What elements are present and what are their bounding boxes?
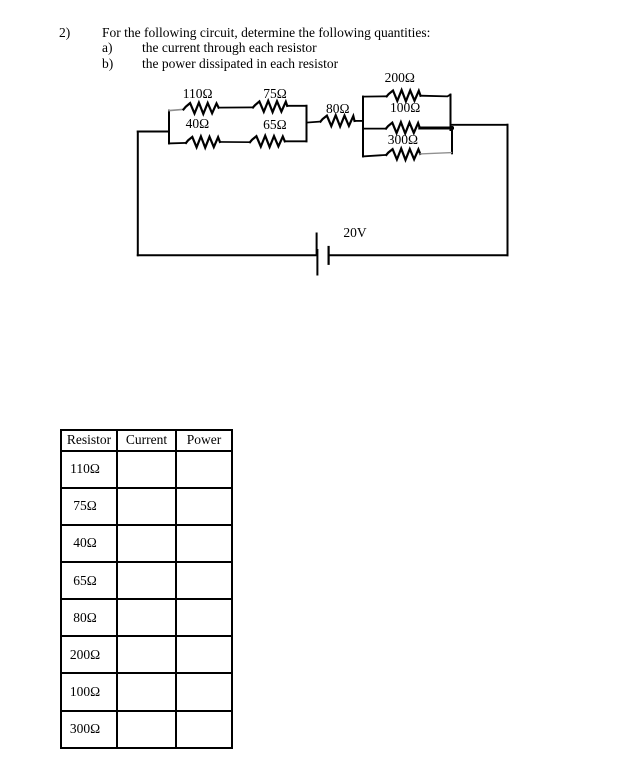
wire output to right outer — [452, 124, 508, 126]
wire bottom branch lead-in second block — [363, 155, 386, 157]
wire bottom branch lead-in — [169, 142, 186, 145]
wire R8 to right bus grey — [420, 153, 451, 154]
wire left stub to node A — [138, 131, 169, 133]
wire right outer vertical — [507, 125, 509, 256]
node A left bus of first parallel block — [168, 111, 170, 144]
battery V1 short plate — [328, 247, 330, 264]
wire R5 to node C — [355, 120, 364, 122]
resistor R5 80ohm — [321, 115, 355, 126]
wire node B to R5 — [307, 122, 321, 123]
wire between R1 and R2 — [219, 106, 253, 108]
resistor R8 300ohm — [386, 149, 420, 160]
wire middle branch lead-in — [363, 128, 386, 130]
wire between R3 and R4 — [220, 141, 250, 143]
resistor R2 75ohm — [253, 101, 287, 112]
value label 75ohm — [263, 87, 287, 101]
node C left bus of second parallel block — [362, 97, 364, 157]
value label 40ohm — [186, 117, 210, 131]
resistor R4 65ohm — [250, 136, 285, 147]
wire R4 to right bus — [285, 140, 307, 142]
resistor R1 110ohm — [184, 103, 219, 114]
value label 300ohm — [388, 133, 418, 147]
problem text — [59, 25, 70, 41]
resistor R7 100ohm — [386, 122, 420, 133]
value label 20V — [343, 226, 366, 240]
node D right bus lower — [451, 127, 453, 153]
wire bottom left segment — [138, 254, 317, 256]
resistor R3 40ohm — [186, 136, 220, 147]
battery V1 long plate lower — [316, 250, 318, 275]
value label 110ohm — [183, 87, 213, 101]
wire bottom right segment — [329, 254, 508, 256]
battery V1 long plate — [316, 234, 318, 255]
wire R7 to right bus thick — [420, 127, 453, 130]
wire R2 to right bus — [287, 105, 306, 107]
value label 100ohm — [390, 101, 420, 115]
wire top branch lead-in — [169, 109, 184, 110]
value label 80ohm — [326, 102, 350, 116]
wire left outer vertical — [137, 132, 139, 256]
node B right bus of first parallel block — [306, 106, 308, 142]
node D right bus of second parallel block upper — [450, 95, 452, 130]
results table — [60, 429, 233, 749]
wire top branch lead-in second block — [363, 95, 387, 97]
value label 200ohm — [385, 71, 415, 85]
resistor R6 200ohm — [387, 90, 421, 101]
value label 65ohm — [263, 118, 287, 132]
wire R6 to right bus with hook — [421, 95, 451, 97]
